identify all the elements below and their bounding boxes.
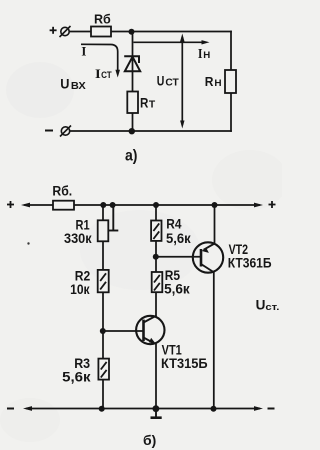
- svg-text:а): а): [125, 148, 138, 165]
- bent current arrow I: [81, 44, 118, 70]
- svg-text:IН: IН: [198, 47, 210, 62]
- svg-text:КТ361Б: КТ361Б: [228, 254, 272, 270]
- svg-text:10к: 10к: [70, 281, 90, 297]
- plus sign b right: [269, 201, 276, 208]
- wire zener branch: [132, 32, 134, 132]
- svg-text:330к: 330к: [64, 230, 92, 246]
- scan speck: [27, 242, 29, 244]
- svg-text:Rб.: Rб.: [52, 184, 72, 199]
- wire top rail b: [25, 204, 259, 206]
- R1 trimmer tap: [108, 205, 118, 231]
- svg-text:Rб: Rб: [94, 12, 111, 26]
- wire right side a: [230, 32, 232, 132]
- transistor VT2 (PNP КТ361Б): [193, 242, 223, 272]
- resistor R1 (trimmer box): [98, 220, 109, 241]
- wire bottom rail a: [69, 130, 231, 132]
- arrowhead top rail left: [21, 203, 30, 208]
- plus sign a: [50, 27, 57, 34]
- wire VT1 base: [103, 330, 144, 332]
- junction dot bottom a: [129, 128, 135, 134]
- svg-text:5,6к: 5,6к: [164, 281, 191, 297]
- wire VT2 emitter from rail: [214, 205, 216, 243]
- terminal + input (circle with slash): [60, 26, 71, 37]
- wire left column R1-R2-R3: [102, 205, 104, 409]
- wire VT2 collector down: [213, 273, 215, 409]
- transistor VT1 (NPN КТ315Б): [136, 316, 164, 345]
- svg-text:КТ315Б: КТ315Б: [161, 355, 208, 371]
- minus sign a: [45, 130, 53, 132]
- wire middle column R4-R5: [155, 205, 157, 316]
- zener diode VD (cathode bar with tick + triangle): [124, 56, 140, 71]
- minus sign b left: [7, 408, 14, 410]
- resistor R2 (box with slash): [98, 270, 109, 292]
- svg-text:5,6к: 5,6к: [62, 368, 91, 384]
- junction dot VT2 emitter rail: [212, 202, 218, 208]
- junction dot VT1 emitter bottom: [153, 405, 160, 412]
- Uст dimension arrow (double headed vertical): [181, 37, 183, 125]
- svg-text:5,6к: 5,6к: [166, 230, 192, 246]
- terminal - input (circle with slash): [60, 126, 71, 137]
- wire VT2 base: [156, 256, 201, 258]
- resistor Rн (box on right wire): [225, 70, 236, 93]
- junction dot R1 top: [100, 202, 106, 208]
- resistor Rб. (box on top rail b): [53, 201, 74, 210]
- junction dot VT2 collector bottom: [211, 406, 217, 412]
- junction dot R4 top: [153, 202, 159, 208]
- arrowhead top rail right: [254, 203, 263, 208]
- arrowhead bottom rail right: [254, 406, 263, 411]
- svg-text:б): б): [143, 432, 156, 448]
- resistor R5 (box with slash): [152, 272, 163, 292]
- arrowhead bottom rail left: [23, 406, 32, 411]
- junction dot top a: [129, 29, 135, 35]
- svg-text:I: I: [81, 44, 86, 59]
- resistor Rб (box on top rail): [91, 27, 111, 37]
- resistor R4 (box with slash): [151, 221, 161, 241]
- resistor R3 (box with slash): [98, 359, 109, 380]
- resistor Rт (box on zener branch): [127, 92, 138, 114]
- wire bottom rail b: [27, 408, 259, 410]
- junction dot R3 bottom: [99, 406, 105, 412]
- ground tick below bottom rail: [151, 409, 162, 418]
- junction dot R4/R5: [153, 254, 159, 260]
- minus sign b right: [268, 408, 275, 410]
- wire VT1 emitter down: [155, 345, 157, 409]
- wire top rail a: [69, 31, 231, 33]
- junction dot R1 wiper tap: [110, 202, 116, 208]
- Iн current arrow on top: [134, 41, 204, 43]
- junction dot R2/R3 base tap: [100, 328, 106, 334]
- plus sign b left: [7, 201, 14, 208]
